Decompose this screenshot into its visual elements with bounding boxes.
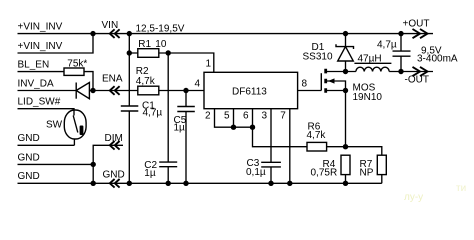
svg-text:0,1µ: 0,1µ: [246, 167, 266, 178]
svg-text:4: 4: [195, 78, 201, 89]
pin 6 stub: [252, 109, 254, 128]
svg-text:NP: NP: [360, 167, 374, 178]
svg-text:GND: GND: [18, 171, 40, 182]
wire DIM stub and drop: [93, 145, 123, 164]
net flag -OUT chevron: [413, 67, 428, 76]
svg-text:лу-у: лу-у: [404, 192, 423, 203]
svg-text:1: 1: [206, 59, 212, 70]
capacitor C1: [121, 100, 163, 118]
node R6/R4/R7/MOS source: [343, 144, 348, 149]
pin 5 stub: [233, 109, 235, 128]
svg-text:0,75R: 0,75R: [311, 167, 338, 178]
net flag ENA chevron: [110, 86, 120, 95]
svg-text:4,7k: 4,7k: [136, 76, 156, 87]
pin 3 stub: [270, 109, 272, 163]
wire output row: [346, 71, 434, 73]
node VIN junction at x93: [90, 31, 95, 36]
svg-text:1µ: 1µ: [144, 168, 156, 179]
svg-text:10: 10: [155, 39, 167, 50]
net flag VIN chevron: [110, 29, 120, 38]
svg-text:2: 2: [205, 111, 211, 122]
svg-text:8: 8: [302, 78, 308, 89]
node rail junctions: [91, 181, 96, 186]
resistor R6: [307, 121, 346, 151]
resistor R1: [129, 39, 168, 57]
wire VIN top rail: [18, 33, 434, 35]
svg-text:4,7µ: 4,7µ: [377, 40, 397, 51]
wire INV_DA: [18, 90, 77, 92]
svg-text:INV_DA: INV_DA: [18, 78, 54, 89]
wire to R7 top: [346, 147, 382, 156]
svg-text:ти: ти: [456, 183, 466, 194]
capacitor 4,7µ output: [377, 34, 411, 72]
svg-text:VIN: VIN: [102, 20, 119, 31]
resistor R7: [360, 155, 387, 183]
svg-text:GND: GND: [103, 170, 125, 181]
svg-text:75k*: 75k*: [67, 58, 87, 69]
wire +VIN_INV second entry with riser: [18, 34, 94, 53]
node diode/75k junction: [90, 88, 95, 93]
svg-text:+VIN_INV: +VIN_INV: [18, 41, 63, 52]
op-amp U1 DF6113 body: [204, 72, 298, 108]
wire GND row2: [18, 163, 94, 165]
capacitor C2: [144, 160, 177, 179]
svg-text:R1: R1: [138, 39, 151, 50]
pin 2 stub: [215, 109, 253, 128]
diode D1 SS310: [303, 34, 354, 72]
svg-text:5: 5: [224, 111, 230, 122]
svg-text:+VIN_INV: +VIN_INV: [18, 22, 63, 33]
node R1 left junction: [127, 50, 132, 55]
capacitor C3: [246, 158, 281, 183]
wire DIM drop to rail: [92, 164, 94, 183]
svg-text:7: 7: [280, 111, 286, 122]
svg-text:1µ: 1µ: [174, 122, 186, 133]
svg-text:19N10: 19N10: [353, 92, 383, 103]
transistor MOS 19N10: [298, 69, 383, 147]
pin 7 stub to rail: [289, 109, 291, 184]
svg-text:47µH: 47µH: [358, 53, 382, 64]
wire BL_EN: [18, 71, 65, 73]
wire LID_SW#: [18, 109, 75, 116]
node R1 right junction: [166, 50, 171, 55]
svg-text:GND: GND: [18, 152, 40, 163]
node D1 bottom / drain: [343, 69, 348, 74]
svg-text:SS310: SS310: [303, 52, 333, 63]
net flag +OUT chevron: [413, 29, 428, 38]
wire R2 to pin4: [159, 90, 204, 92]
net flag GND chevron: [110, 179, 120, 188]
svg-text:12,5-19,5V: 12,5-19,5V: [136, 23, 185, 34]
wire pins256 to R6: [253, 127, 308, 147]
svg-text:+OUT: +OUT: [403, 18, 430, 29]
svg-text:4,7k: 4,7k: [307, 130, 327, 141]
diode (INV_DA series): [76, 83, 93, 99]
node D1 top: [343, 31, 348, 36]
svg-text:ENA: ENA: [102, 74, 123, 85]
wire GND row1: [18, 144, 75, 146]
svg-text:BL_EN: BL_EN: [18, 60, 50, 71]
node DIM/GND2 junction: [91, 162, 96, 167]
wire ground rail: [18, 182, 382, 184]
node C5 tap: [183, 88, 188, 93]
svg-text:-OUT: -OUT: [405, 75, 429, 86]
svg-text:LID_SW#: LID_SW#: [18, 97, 61, 108]
svg-text:4,7µ: 4,7µ: [143, 108, 163, 119]
wire R1 to pin1: [168, 53, 214, 72]
wire C5 vertical: [185, 91, 187, 184]
svg-text:DIM: DIM: [105, 133, 123, 144]
switch SW: [46, 110, 86, 145]
svg-text:6: 6: [243, 111, 249, 122]
capacitor C5: [174, 107, 195, 134]
svg-text:SW: SW: [46, 119, 63, 130]
inductor 47µH: [354, 53, 391, 71]
node L right / cap top: [398, 69, 403, 74]
wire vertical node1 to C2/GND: [167, 53, 169, 183]
net flag DIM chevron: [110, 141, 120, 150]
wire ENA to R2: [93, 90, 138, 92]
wire vertical VIN to R1/C1/GND: [128, 34, 130, 184]
svg-text:3: 3: [262, 111, 268, 122]
resistor R4: [311, 155, 351, 183]
svg-text:3-400mA: 3-400mA: [417, 54, 458, 65]
node R1 tap junction: [127, 31, 132, 36]
svg-text:GND: GND: [18, 133, 40, 144]
resistor R2: [136, 66, 159, 95]
svg-text:DF6113: DF6113: [232, 87, 267, 98]
node out cap top: [398, 31, 403, 36]
resistor 75k*: [64, 58, 93, 90]
